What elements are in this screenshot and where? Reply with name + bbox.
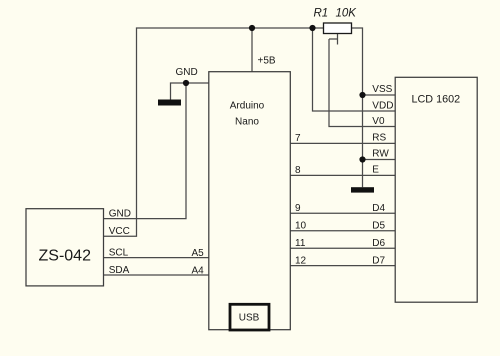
svg-text:A4: A4 [192,265,205,276]
svg-text:USB: USB [239,312,260,323]
svg-text:+5B: +5B [258,56,276,67]
svg-text:VDD: VDD [372,100,393,111]
svg-text:SCL: SCL [109,247,129,258]
svg-text:8: 8 [295,165,301,176]
svg-text:11: 11 [295,238,306,249]
svg-text:Nano: Nano [235,117,259,128]
svg-text:D4: D4 [372,203,385,214]
svg-text:RS: RS [372,132,386,143]
svg-text:R1: R1 [314,8,329,20]
svg-text:VSS: VSS [372,84,392,95]
svg-text:E: E [372,164,379,175]
svg-text:GND: GND [176,67,198,78]
svg-text:7: 7 [295,133,301,144]
svg-text:9: 9 [295,203,301,214]
svg-text:10: 10 [295,221,307,232]
svg-text:12: 12 [295,256,307,267]
svg-text:D6: D6 [372,238,385,249]
svg-text:D5: D5 [372,221,385,232]
svg-text:D7: D7 [372,255,385,266]
svg-text:V0: V0 [372,116,385,127]
svg-text:LCD 1602: LCD 1602 [412,94,461,106]
svg-text:SDA: SDA [109,265,130,276]
svg-text:ZS-042: ZS-042 [39,248,92,265]
svg-text:Arduino: Arduino [230,100,265,111]
svg-text:RW: RW [372,148,389,159]
svg-text:10K: 10K [336,8,358,20]
svg-text:A5: A5 [192,248,205,259]
svg-text:VCC: VCC [109,226,130,237]
svg-text:GND: GND [109,208,131,219]
